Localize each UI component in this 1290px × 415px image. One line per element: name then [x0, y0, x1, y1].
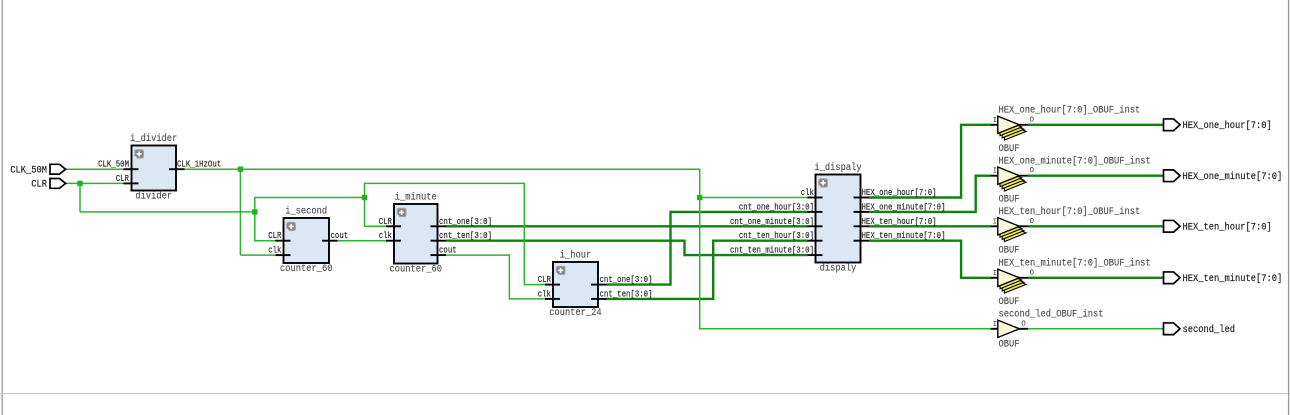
svg-text:cnt_ten[3:0]: cnt_ten[3:0] — [600, 289, 653, 299]
svg-text:HEX_one_hour[7:0]_OBUF_inst: HEX_one_hour[7:0]_OBUF_inst — [999, 105, 1141, 117]
svg-text:cnt_ten_minute[3:0]: cnt_ten_minute[3:0] — [730, 246, 814, 256]
svg-text:HEX_ten_hour[7:0]_OBUF_inst: HEX_ten_hour[7:0]_OBUF_inst — [999, 206, 1141, 218]
svg-text:OBUF: OBUF — [999, 297, 1020, 308]
svg-text:OBUF: OBUF — [999, 195, 1020, 206]
svg-text:counter_24: counter_24 — [549, 308, 602, 319]
svg-text:CLR: CLR — [379, 217, 393, 227]
svg-text:I: I — [993, 321, 998, 329]
svg-text:divider: divider — [135, 191, 172, 203]
svg-text:HEX_ten_hour[7:0]: HEX_ten_hour[7:0] — [862, 217, 937, 227]
svg-text:cout: cout — [331, 231, 349, 241]
svg-text:HEX_one_minute[7:0]: HEX_one_minute[7:0] — [862, 202, 946, 212]
svg-text:O: O — [1030, 116, 1035, 124]
svg-text:cout: cout — [439, 246, 457, 256]
svg-text:dispaly: dispaly — [820, 263, 857, 275]
svg-text:cnt_one_hour[3:0]: cnt_one_hour[3:0] — [739, 202, 814, 212]
svg-text:HEX_ten_hour[7:0]: HEX_ten_hour[7:0] — [1183, 222, 1272, 234]
svg-text:OBUF: OBUF — [999, 340, 1020, 351]
svg-text:i_minute: i_minute — [395, 191, 437, 203]
svg-text:I: I — [993, 117, 998, 125]
svg-text:OBUF: OBUF — [999, 144, 1020, 155]
svg-text:I: I — [993, 270, 998, 278]
svg-text:i_second: i_second — [285, 205, 327, 217]
svg-text:counter_60: counter_60 — [280, 264, 333, 275]
svg-text:cnt_one_minute[3:0]: cnt_one_minute[3:0] — [730, 217, 814, 227]
svg-text:second_led_OBUF_inst: second_led_OBUF_inst — [999, 309, 1104, 321]
svg-text:HEX_one_hour[7:0]: HEX_one_hour[7:0] — [862, 188, 937, 198]
svg-text:cnt_ten[3:0]: cnt_ten[3:0] — [439, 231, 492, 241]
svg-text:i_dispaly: i_dispaly — [814, 162, 861, 174]
svg-text:clk: clk — [801, 188, 814, 198]
svg-text:O: O — [1021, 320, 1026, 328]
svg-text:i_divider: i_divider — [130, 133, 177, 145]
svg-text:i_hour: i_hour — [560, 249, 592, 261]
svg-text:CLR: CLR — [31, 180, 47, 191]
svg-text:counter_60: counter_60 — [390, 265, 443, 276]
svg-text:clk: clk — [379, 231, 392, 241]
svg-text:HEX_ten_minute[7:0]_OBUF_inst: HEX_ten_minute[7:0]_OBUF_inst — [999, 258, 1151, 270]
svg-text:CLK_50M: CLK_50M — [98, 160, 129, 170]
svg-text:CLR: CLR — [538, 275, 552, 285]
svg-text:I: I — [993, 218, 998, 226]
svg-text:cnt_one[3:0]: cnt_one[3:0] — [600, 275, 653, 285]
svg-text:CLK_50M: CLK_50M — [10, 166, 47, 177]
svg-text:CLR: CLR — [116, 174, 130, 184]
svg-text:HEX_ten_minute[7:0]: HEX_ten_minute[7:0] — [862, 231, 946, 241]
svg-text:CLK_1HzOut: CLK_1HzOut — [177, 160, 221, 170]
svg-text:HEX_one_minute[7:0]_OBUF_inst: HEX_one_minute[7:0]_OBUF_inst — [999, 156, 1151, 168]
svg-text:cnt_one[3:0]: cnt_one[3:0] — [439, 217, 492, 227]
svg-text:HEX_one_hour[7:0]: HEX_one_hour[7:0] — [1183, 120, 1272, 132]
svg-text:HEX_one_minute[7:0]: HEX_one_minute[7:0] — [1183, 171, 1283, 183]
svg-text:HEX_ten_minute[7:0]: HEX_ten_minute[7:0] — [1183, 273, 1283, 285]
svg-text:CLR: CLR — [268, 231, 282, 241]
svg-text:second_led: second_led — [1183, 324, 1236, 336]
svg-text:O: O — [1030, 218, 1035, 226]
svg-text:O: O — [1030, 269, 1035, 277]
svg-text:OBUF: OBUF — [999, 245, 1020, 256]
svg-text:O: O — [1030, 167, 1035, 175]
svg-text:I: I — [993, 168, 998, 176]
svg-text:clk: clk — [268, 246, 281, 256]
svg-text:cnt_ten_hour[3:0]: cnt_ten_hour[3:0] — [739, 231, 814, 241]
svg-text:clk: clk — [538, 289, 551, 299]
